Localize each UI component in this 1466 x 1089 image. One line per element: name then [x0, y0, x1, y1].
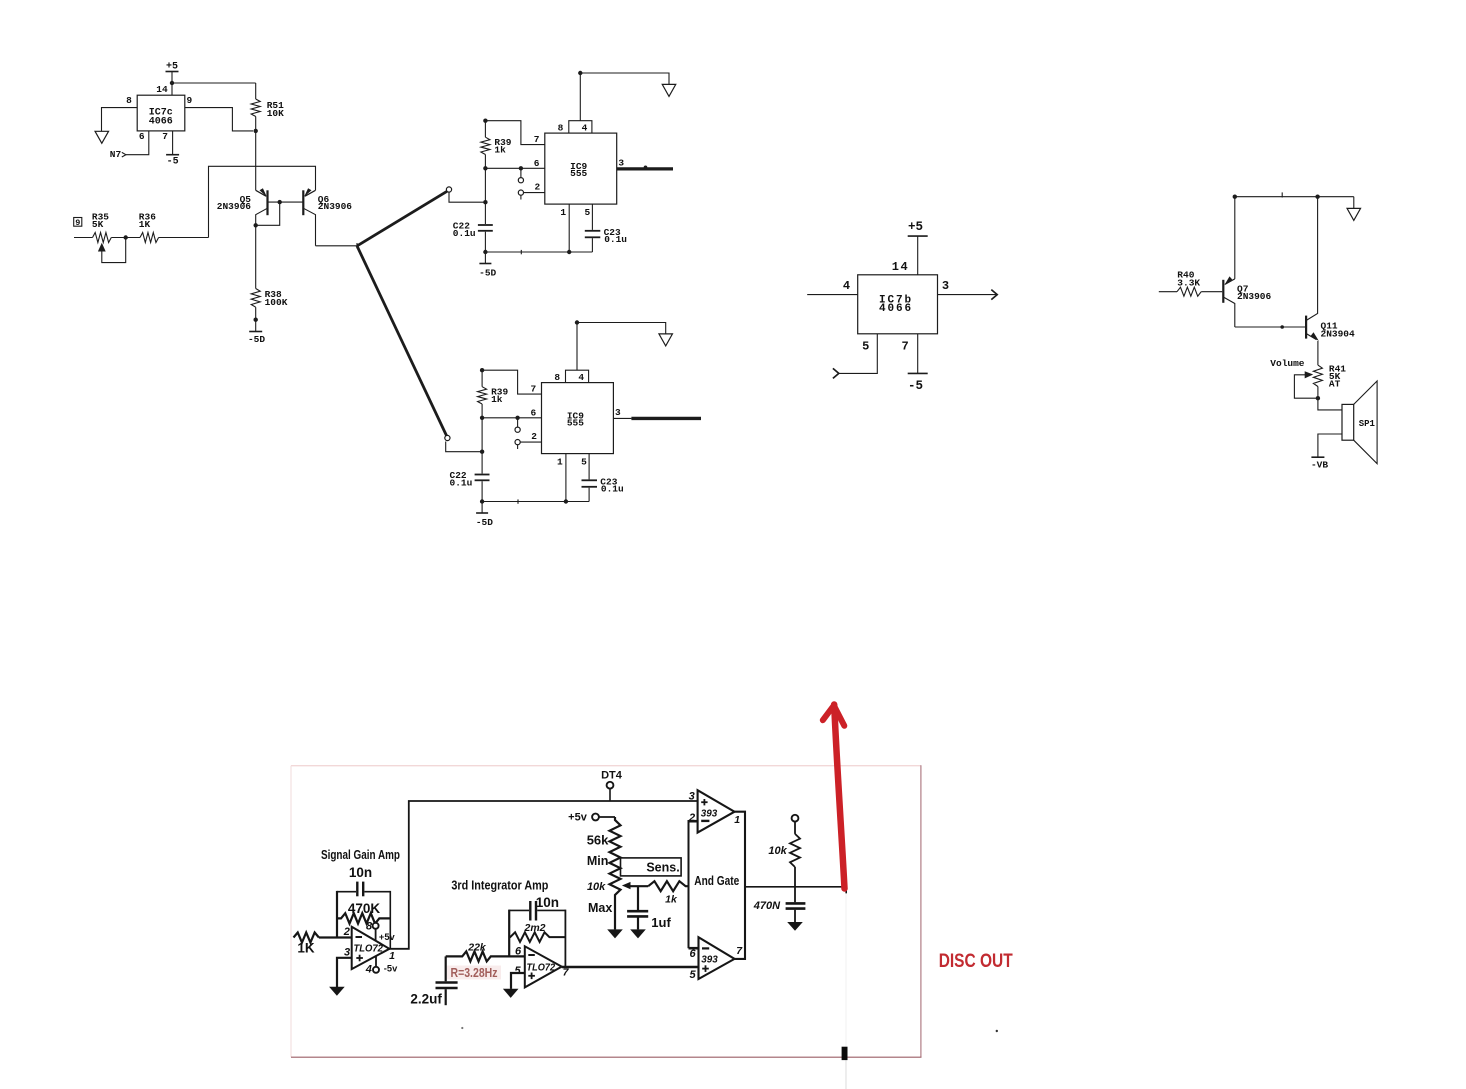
pin 14 label [156, 84, 168, 95]
wire input to op-amp [319, 936, 352, 938]
resistor R38 [251, 225, 288, 319]
svg-text:5: 5 [862, 340, 869, 354]
svg-text:8: 8 [126, 95, 132, 106]
svg-text:6: 6 [689, 948, 696, 960]
wire feedback left vertical [336, 891, 338, 938]
node Q5 collector junction [254, 223, 258, 227]
mark speck [461, 1027, 463, 1029]
svg-text:DISC OUT: DISC OUT [939, 951, 1013, 972]
wire ground rail 555 [485, 250, 592, 254]
svg-text:0.1u: 0.1u [601, 484, 624, 495]
node R38 bottom [254, 318, 258, 322]
ground (pot) [607, 929, 623, 938]
svg-text:+5: +5 [908, 220, 923, 234]
capacitor 2.2uf [410, 956, 457, 1006]
svg-text:Sens.: Sens. [646, 860, 679, 874]
svg-text:8: 8 [558, 123, 564, 134]
power -5D (R38) [248, 320, 265, 345]
wire pin9 to R51 bottom [185, 108, 253, 131]
resistor 470K feedback [337, 901, 390, 924]
wire pin6 [483, 166, 545, 170]
op IC9 555 box [542, 370, 614, 453]
pin 1 label (555) [560, 207, 566, 218]
pin 6 label (555) [530, 408, 536, 419]
node C22 bottom [483, 250, 487, 254]
svg-text:4: 4 [582, 123, 588, 134]
wire 555 pin4 to ground [580, 73, 669, 84]
border pink frame [291, 765, 922, 1057]
node output tick [845, 881, 847, 893]
switch arm to 555a [357, 191, 447, 246]
wire pin14 to +5 [171, 72, 173, 96]
node R41 bottom [1316, 396, 1320, 400]
svg-text:3rd Integrator Amp: 3rd Integrator Amp [451, 878, 548, 892]
svg-text:8: 8 [366, 920, 373, 932]
pot R41 wiper [1294, 371, 1318, 398]
label Volume [1270, 358, 1305, 369]
power -5D (555) [476, 502, 493, 528]
wire output up to top rail [389, 801, 697, 949]
svg-text:5: 5 [689, 969, 696, 981]
wire speaker bottom to -VB [1318, 434, 1342, 457]
resistor 2m2 feedback [509, 922, 565, 942]
power -5 (IC7b) [908, 373, 928, 393]
ground (IC7c pin8) [95, 131, 109, 143]
svg-text:100K: 100K [265, 297, 288, 308]
wire Q5 base to Q6 base [268, 201, 304, 203]
wire pin7 to -5 [917, 334, 919, 374]
svg-text:555: 555 [567, 417, 584, 428]
wire Q6 collector to switch [316, 245, 358, 247]
svg-text:And Gate: And Gate [694, 874, 739, 888]
capacitor C23 0.1u [585, 204, 628, 252]
svg-text:7: 7 [530, 384, 536, 395]
svg-text:6: 6 [530, 408, 536, 419]
timer IC9 555 lower [0, 0, 1, 1]
wire switch contact to C22 node [446, 442, 482, 452]
svg-text:0.1u: 0.1u [604, 234, 627, 245]
jumper contact lower [518, 190, 523, 200]
transistor Q6 2N3906 [303, 188, 352, 246]
pin 7 label (555) [534, 134, 540, 145]
terminal +5v [568, 812, 615, 824]
svg-text:1K: 1K [297, 940, 315, 955]
ground (integrator) [503, 989, 519, 998]
transistor Q11 2N3904 [1306, 197, 1355, 365]
wire R39 bottom to C22 [483, 168, 487, 224]
svg-text:-5v: -5v [384, 964, 398, 974]
svg-text:6: 6 [139, 131, 145, 142]
capacitor C22 0.1u [450, 470, 490, 501]
svg-text:4: 4 [365, 963, 372, 975]
op IC7b 4066 box [858, 275, 938, 334]
pin 8 label [126, 95, 132, 106]
svg-text:4066: 4066 [879, 303, 913, 315]
svg-text:470N: 470N [753, 900, 781, 912]
svg-text:393: 393 [701, 954, 718, 966]
node C22 bottom [480, 499, 484, 503]
svg-text:+5v: +5v [568, 812, 588, 824]
ground (555 pin4) [659, 334, 673, 346]
svg-text:2N3906: 2N3906 [217, 201, 252, 212]
svg-text:-5: -5 [908, 379, 923, 393]
red annotation arrow [823, 705, 845, 889]
svg-text:0.1u: 0.1u [453, 228, 476, 239]
svg-text:9: 9 [186, 95, 192, 106]
pin 4 label (555) [578, 372, 584, 383]
wire pin6 [480, 416, 542, 420]
wire R36 to emitter rail [159, 237, 209, 239]
pin 7 label (555) [530, 384, 536, 395]
svg-text:DT4: DT4 [601, 769, 623, 781]
svg-text:4066: 4066 [149, 116, 173, 127]
pin 4 -5v (op-amp 1) [365, 956, 398, 975]
transistor Q5 2N3906 [217, 188, 268, 227]
node junction pin14/+5 rail [170, 81, 174, 85]
wire feedback right vertical [389, 891, 391, 949]
pin 4 label (555) [582, 123, 588, 134]
svg-text:Min: Min [587, 854, 609, 868]
mark speck2 [996, 1030, 998, 1032]
pin 6 label (555) [534, 158, 540, 169]
svg-text:5: 5 [515, 965, 522, 977]
svg-text:2: 2 [535, 181, 541, 192]
resistor R35 5K pot [92, 211, 111, 242]
wire pin5 to ground (integrator) [511, 973, 525, 989]
jumper contact lower [515, 440, 520, 450]
resistor R41 5K pot (volume) [1313, 364, 1346, 399]
timer IC9 555 upper [0, 0, 1, 1]
svg-text:-5D: -5D [479, 267, 496, 278]
op IC9 555 box [545, 121, 617, 204]
node base junction [278, 200, 282, 204]
svg-text:Max: Max [588, 901, 612, 915]
capacitor 1uf [627, 886, 671, 930]
ground (470N) [787, 922, 803, 931]
node R51/pin9 junction [254, 129, 258, 133]
svg-text:14: 14 [156, 84, 168, 95]
pin 6 label [139, 131, 145, 142]
ground (op-amp 1) [329, 987, 345, 996]
svg-text:2N3906: 2N3906 [1237, 291, 1272, 302]
resistor R39 1k [481, 119, 512, 169]
wire pin2 [520, 441, 541, 443]
wire 555 pin4 to ground [577, 323, 666, 334]
svg-text:-VB: -VB [1311, 460, 1328, 471]
ground (1uf) [630, 929, 646, 938]
op-amp TLO72 integrator [515, 945, 570, 987]
wire pin2 stub [689, 820, 698, 823]
svg-text:10K: 10K [267, 108, 284, 119]
svg-text:3: 3 [942, 279, 949, 293]
svg-text:Volume: Volume [1270, 358, 1305, 369]
svg-text:2N3904: 2N3904 [1321, 329, 1356, 340]
wire pin7 to -5 [172, 131, 174, 155]
svg-text:1K: 1K [139, 219, 151, 230]
svg-text:R=3.28Hz: R=3.28Hz [451, 966, 498, 980]
capacitor C23 0.1u [582, 454, 625, 502]
svg-text:TLO72: TLO72 [527, 962, 556, 973]
label 3rd Integrator Amp [451, 878, 548, 892]
wire pin8 to ground [102, 108, 138, 132]
wire R39 top to pin7 [485, 121, 544, 145]
svg-text:1k: 1k [494, 145, 506, 156]
capacitor C22 0.1u [453, 221, 493, 252]
pin 9 label [186, 95, 192, 106]
pin 7 label [162, 131, 168, 142]
svg-text:8: 8 [554, 372, 560, 383]
svg-text:-5D: -5D [248, 334, 265, 345]
svg-text:6: 6 [515, 945, 522, 957]
op IC7c 4066 box [137, 95, 185, 131]
svg-text:10k: 10k [768, 845, 787, 857]
wire +5 rail to R51 [172, 82, 256, 84]
svg-text:555: 555 [570, 168, 587, 179]
svg-text:2.2uf: 2.2uf [410, 992, 442, 1007]
wire 555 pin4 stem [576, 323, 578, 371]
comparator 393 lower [689, 937, 743, 981]
svg-text:1uf: 1uf [651, 915, 671, 930]
capacitor 10n (signal amp) [337, 865, 390, 896]
node rail right [1315, 195, 1319, 199]
svg-text:10n: 10n [536, 895, 559, 910]
wire base to collector tie [256, 202, 280, 225]
wire switch contact to C22 node [449, 192, 485, 202]
label R=3.28Hz [447, 966, 501, 981]
wire pin1 [567, 204, 571, 254]
wire faint scan line [845, 893, 847, 1089]
svg-text:56k: 56k [587, 833, 609, 848]
wire input to R35 [74, 237, 93, 239]
resistor R51 [251, 83, 284, 131]
resistor R39 1k [478, 368, 509, 418]
wire pin3 output arrow [938, 290, 998, 300]
power +5 (IC7c) [166, 62, 179, 73]
svg-text:1: 1 [560, 207, 566, 218]
svg-text:0.1u: 0.1u [450, 477, 473, 488]
svg-text:2: 2 [531, 431, 537, 442]
pin 5 label (555) [581, 456, 587, 467]
svg-text:5K: 5K [92, 219, 104, 230]
svg-text:1k: 1k [665, 894, 678, 906]
wire integrator output to and gate [562, 966, 699, 969]
svg-text:1: 1 [389, 950, 395, 962]
resistor 1K input [294, 933, 319, 956]
pin 5 label (IC7b) [862, 340, 869, 354]
wire pin3 output [613, 417, 701, 419]
switch contact b [445, 435, 450, 440]
pin 4 label (IC7b) [843, 279, 850, 293]
wire 555 pin4 stem [579, 73, 581, 121]
svg-text:+5v: +5v [379, 932, 396, 942]
svg-text:14: 14 [892, 260, 909, 274]
resistor 10k pullup [768, 815, 800, 887]
ground (output stage) [1347, 197, 1361, 221]
pin 7 label (IC7b) [901, 340, 908, 354]
wire pin3 output [617, 166, 673, 170]
power -5 (IC7c) [166, 155, 179, 168]
pin 3 label (555) [618, 158, 624, 169]
svg-text:3: 3 [344, 946, 350, 958]
wire pin4 input [807, 294, 858, 296]
wire ground rail 555 [482, 499, 589, 503]
pin 3 label (IC7b) [942, 279, 949, 293]
wire R51 junction to Q5 emitter [255, 131, 257, 190]
power +5 (IC7b) [908, 220, 928, 236]
svg-text:4: 4 [578, 372, 584, 383]
svg-text:10k: 10k [587, 881, 606, 893]
svg-text:-5D: -5D [476, 517, 493, 528]
wire R35 to R36 [111, 237, 140, 239]
resistor R40 3.3K [1159, 270, 1222, 297]
wire emitter rail [209, 166, 316, 237]
resistor 22k [446, 942, 525, 962]
svg-text:2: 2 [343, 926, 350, 938]
terminal DT4 [601, 769, 623, 801]
svg-text:10n: 10n [349, 865, 372, 880]
pin 2 label (555) [531, 431, 537, 442]
svg-text:7: 7 [534, 134, 540, 145]
pin 2 label (555) [535, 181, 541, 192]
svg-text:3: 3 [689, 791, 695, 803]
wire pin6 stub [689, 947, 699, 950]
wire top rail (Q7/Q11) [1235, 192, 1354, 197]
wire and-gate left vertical [688, 820, 690, 948]
svg-text:3.3K: 3.3K [1177, 277, 1200, 288]
speaker SP1 [1342, 381, 1377, 464]
svg-text:3: 3 [618, 158, 624, 169]
switch contact a [446, 187, 451, 192]
svg-text:N7: N7 [110, 149, 122, 160]
capacitor 10n (integrator) [509, 895, 565, 921]
pin 8 label (555) [558, 123, 564, 134]
net label 9 [74, 218, 82, 229]
node R35/R36 junction [124, 235, 128, 239]
pin 8 label (555) [554, 372, 560, 383]
jumper contact upper [518, 168, 523, 182]
label DISC OUT [939, 951, 1013, 972]
op-amp TLO72 signal gain [343, 926, 395, 969]
wire pin1 [564, 454, 568, 504]
label And Gate [694, 874, 739, 888]
svg-text:-5: -5 [167, 156, 179, 167]
pot wiper to 1uf/1k [622, 882, 648, 889]
svg-text:2N3906: 2N3906 [318, 201, 353, 212]
svg-text:1: 1 [734, 814, 740, 826]
node rail left [1233, 195, 1237, 199]
capacitor 470N [753, 887, 806, 922]
pin 8 +5v (op-amp 1) [366, 920, 396, 941]
wire switch common [356, 243, 358, 249]
wire to speaker top [1318, 398, 1342, 410]
wire pin3 to ground (op-amp 1) [337, 958, 352, 988]
svg-text:1: 1 [557, 456, 563, 467]
wire Q7 collector to Q11 base [1235, 325, 1306, 329]
jumper contact upper [515, 418, 520, 433]
svg-text:393: 393 [701, 807, 718, 819]
power -VB [1311, 457, 1328, 470]
transistor Q7 2N3906 [1223, 197, 1271, 327]
svg-text:7: 7 [901, 340, 908, 354]
svg-text:9: 9 [75, 218, 80, 228]
svg-text:5: 5 [581, 456, 587, 467]
wire pin5 input [833, 334, 877, 379]
wire pin2 [524, 192, 545, 194]
resistor 1k (sens) [648, 881, 688, 905]
wire R39 top to pin7 [482, 370, 541, 394]
pot R35 wiper arrow [98, 240, 126, 263]
wire pin6 to N7 [126, 131, 149, 155]
resistor R36 1K [139, 211, 159, 242]
pin 3 label (555) [615, 407, 621, 418]
svg-text:1k: 1k [491, 394, 503, 405]
svg-text:AT: AT [1329, 379, 1341, 390]
svg-text:7: 7 [162, 131, 168, 142]
wire feedback verticals (integrator) [509, 910, 565, 967]
switch arm to 555b [357, 246, 447, 436]
pin 14 label (IC7b) [892, 260, 909, 274]
label Signal Gain Amp [321, 848, 400, 862]
svg-text:5: 5 [584, 207, 590, 218]
pin 5 label (555) [584, 207, 590, 218]
mark black dash [842, 1047, 848, 1060]
comparator 393 upper [688, 790, 740, 832]
node N7 input arrow [110, 149, 126, 160]
node 555 pin4 top junction [575, 320, 579, 324]
svg-text:4: 4 [843, 279, 850, 293]
resistor 56k / pot 10k chain [587, 817, 621, 929]
box Sens. [621, 858, 682, 876]
svg-text:3: 3 [615, 407, 621, 418]
ground (555 pin4) [662, 84, 676, 96]
wire R39 bottom to C22 [480, 418, 484, 474]
svg-text:TLO72: TLO72 [353, 944, 383, 955]
node 555 pin4 top junction [578, 71, 582, 75]
svg-text:6: 6 [534, 158, 540, 169]
svg-text:Signal Gain Amp: Signal Gain Amp [321, 848, 400, 862]
wire and-gate output rect [735, 812, 746, 959]
wire and-gate output [745, 886, 846, 888]
power -5D (555) [479, 252, 496, 278]
pin 1 label (555) [557, 456, 563, 467]
wire pin14 (IC7b) [917, 236, 919, 275]
svg-text:SP1: SP1 [1359, 419, 1376, 429]
